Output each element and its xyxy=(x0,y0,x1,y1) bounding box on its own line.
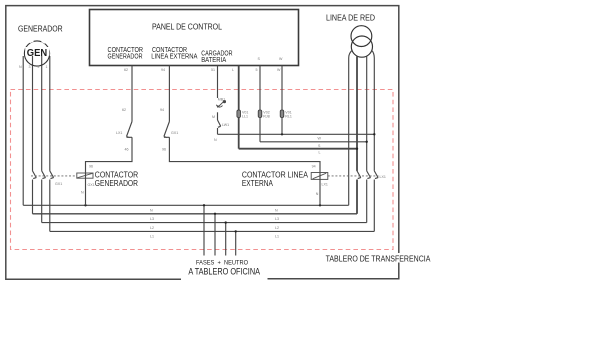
wire lamp 3 xyxy=(281,66,283,111)
svg-text:LX1: LX1 xyxy=(322,183,328,187)
wire lamp 1 (thick, charger L) xyxy=(238,66,240,111)
contact LX1 aux (NC) in GX1 circuit xyxy=(127,122,133,138)
svg-text:A TABLERO OFICINA: A TABLERO OFICINA xyxy=(188,266,260,277)
wire lamp2 lower xyxy=(259,118,261,142)
wire red W lower xyxy=(373,180,375,232)
svg-text:LX1: LX1 xyxy=(116,131,122,135)
svg-text:W: W xyxy=(277,68,281,72)
svg-text:GX1: GX1 xyxy=(88,183,95,187)
LX1 linkage dashed xyxy=(328,175,379,177)
svg-text:LINEA DE RED: LINEA DE RED xyxy=(326,13,375,22)
svg-text:GENERADOR: GENERADOR xyxy=(18,24,63,33)
wire lamp 2 xyxy=(259,66,261,111)
svg-text:MB1: MB1 xyxy=(218,98,225,102)
svg-text:RL1: RL1 xyxy=(285,115,292,119)
svg-text:46: 46 xyxy=(125,148,129,152)
sense line S xyxy=(260,141,367,143)
wire red S upper xyxy=(366,57,368,171)
svg-text:L3: L3 xyxy=(275,217,279,221)
svg-text:FASES + NEUTRO: FASES + NEUTRO xyxy=(196,259,248,266)
svg-text:96: 96 xyxy=(89,164,93,168)
panel de control box xyxy=(90,10,299,66)
junction dots on buses xyxy=(84,204,321,232)
wire red L lower xyxy=(356,180,358,214)
wire lamp3 lower xyxy=(281,118,283,135)
svg-text:L2: L2 xyxy=(150,226,154,230)
wire battery sense from panel xyxy=(217,66,219,99)
lamp V01 LL1 xyxy=(237,110,241,118)
wire red W upper xyxy=(372,50,375,171)
wire below MB1 xyxy=(217,112,219,120)
svg-text:N: N xyxy=(214,138,217,142)
contact GX1 pole 2 xyxy=(42,171,46,179)
svg-text:EXTERNA: EXTERNA xyxy=(242,179,273,188)
output drop F1 xyxy=(214,214,216,256)
sense line L (thick) xyxy=(239,148,357,150)
svg-text:GEN: GEN xyxy=(27,48,47,59)
contact LX1 pole 1 xyxy=(357,171,361,179)
svg-text:N: N xyxy=(275,209,278,213)
wire 62 from panel to GX1 (upper) xyxy=(131,66,133,122)
wire 94 from panel to LX1 (upper) xyxy=(168,66,170,122)
generator G1 symbol xyxy=(24,41,49,66)
svg-text:GENERADOR: GENERADOR xyxy=(108,52,143,61)
sense line W xyxy=(218,133,375,135)
svg-text:LL1: LL1 xyxy=(242,115,248,119)
svg-text:1: 1 xyxy=(46,65,48,69)
wire gen L1 lead lower xyxy=(49,180,51,232)
wire red N xyxy=(349,50,353,205)
GX1 linkage dashed xyxy=(31,175,77,177)
svg-text:W: W xyxy=(279,57,283,61)
outer enclosure border xyxy=(6,6,399,280)
svg-text:PANEL DE CONTROL: PANEL DE CONTROL xyxy=(152,22,222,31)
wire gen L3 lead upper xyxy=(32,56,34,171)
svg-text:L: L xyxy=(319,151,321,155)
wire 46 to coil GX1 xyxy=(86,137,133,173)
bus N horizontal xyxy=(23,204,349,206)
svg-text:LINEA EXTERNA: LINEA EXTERNA xyxy=(151,52,197,61)
svg-text:TABLERO DE TRANSFERENCIA: TABLERO DE TRANSFERENCIA xyxy=(326,253,431,263)
wire gen L1 lead upper xyxy=(49,56,51,171)
svg-text:N: N xyxy=(19,65,22,69)
svg-text:W: W xyxy=(318,136,322,140)
svg-text:M: M xyxy=(212,115,215,119)
svg-text:N: N xyxy=(150,209,153,213)
transformer lower circle xyxy=(351,36,372,57)
wire coil LX1 to bus N xyxy=(319,173,321,206)
contact LX1 pole 3 xyxy=(374,171,378,179)
output drop N xyxy=(203,205,205,255)
wire to W sense line xyxy=(217,128,219,134)
bus L1 horizontal xyxy=(50,230,375,232)
breaker MB1 xyxy=(216,100,225,107)
contactor LX1 pole contacts on red leads xyxy=(357,171,378,179)
svg-text:LW1: LW1 xyxy=(222,123,229,127)
lamp V02 RJ8 xyxy=(258,110,262,118)
wire gen L2 lead lower xyxy=(41,180,43,223)
red line wires from transformer xyxy=(349,50,375,205)
generator G1 wires (4 phase leads) xyxy=(23,56,50,205)
svg-text:3: 3 xyxy=(29,65,31,69)
svg-text:2: 2 xyxy=(38,65,40,69)
svg-text:94: 94 xyxy=(312,165,316,169)
output drop F2 xyxy=(225,223,227,256)
svg-text:GENERADOR: GENERADOR xyxy=(95,179,139,188)
svg-text:62: 62 xyxy=(124,68,128,72)
svg-text:62: 62 xyxy=(122,108,126,112)
svg-text:GX1: GX1 xyxy=(171,131,178,135)
svg-text:L3: L3 xyxy=(150,217,154,221)
svg-text:LX1: LX1 xyxy=(380,175,386,179)
wire red S lower xyxy=(366,180,368,223)
contact GX1 pole 3 xyxy=(50,171,54,179)
contact LW1 xyxy=(218,120,221,127)
wire red L upper (thick) xyxy=(356,57,358,171)
output drop F3 xyxy=(235,231,237,255)
wire 96 to coil LX1 xyxy=(169,137,320,172)
svg-text:96: 96 xyxy=(162,148,166,152)
coil LX1 xyxy=(311,173,328,180)
svg-text:5: 5 xyxy=(256,68,258,72)
svg-text:BATERIA: BATERIA xyxy=(201,55,226,64)
lamp V01 RL1 xyxy=(280,110,284,118)
contact LX1 pole 2 xyxy=(367,171,371,179)
coil GX1 xyxy=(77,173,93,178)
svg-text:N: N xyxy=(81,191,84,195)
svg-text:N: N xyxy=(316,192,319,196)
svg-text:GX1: GX1 xyxy=(55,182,62,186)
wire gen L2 lead upper xyxy=(41,56,43,171)
contact GX1 aux (NC) in LX1 circuit xyxy=(164,122,170,138)
svg-text:94: 94 xyxy=(160,108,164,112)
wire coil GX1 to bus N xyxy=(85,173,87,205)
tablero de transferencia dashed boundary xyxy=(11,90,394,250)
wire gen L3 lead lower xyxy=(32,180,34,214)
svg-text:L: L xyxy=(232,68,234,72)
junction dots sense lines xyxy=(281,133,376,150)
svg-text:RJ8: RJ8 xyxy=(263,115,269,119)
contact GX1 pole 1 xyxy=(33,171,37,179)
wire lamp1 lower (thick) xyxy=(238,118,240,149)
svg-text:51: 51 xyxy=(211,68,215,72)
svg-text:94: 94 xyxy=(161,68,165,72)
contactor GX1 pole contacts on generator leads xyxy=(33,171,54,179)
bus L3 horizontal xyxy=(33,213,358,215)
label TABLERO DE TRANSFERENCIA xyxy=(324,253,432,263)
svg-text:L2: L2 xyxy=(275,226,279,230)
wire gen N lead xyxy=(22,56,24,205)
bus L2 horizontal xyxy=(42,222,367,224)
svg-text:L1: L1 xyxy=(150,235,154,239)
svg-text:L1: L1 xyxy=(275,235,279,239)
transformer upper circle xyxy=(351,26,372,47)
